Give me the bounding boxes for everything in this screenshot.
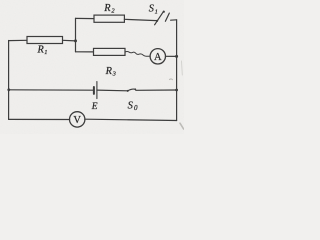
svg-text:A: A	[154, 52, 162, 63]
svg-text:1: 1	[44, 49, 47, 56]
svg-text:R: R	[103, 3, 111, 14]
svg-text:0: 0	[134, 104, 138, 112]
svg-text:E: E	[91, 102, 98, 112]
svg-text:3: 3	[112, 70, 117, 77]
svg-text:S: S	[149, 4, 154, 15]
svg-text:V: V	[73, 115, 81, 126]
svg-text:S: S	[128, 100, 134, 111]
svg-text:1: 1	[155, 9, 158, 16]
svg-text:R: R	[105, 66, 113, 77]
